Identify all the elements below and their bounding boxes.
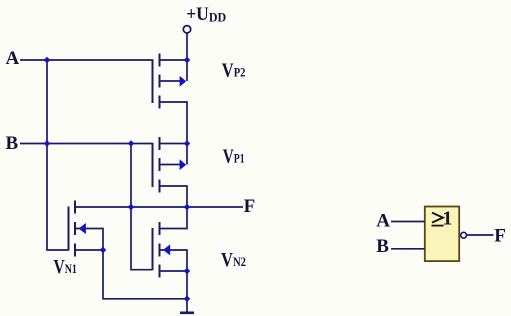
svg-text:1: 1 xyxy=(442,207,452,229)
svg-text:F: F xyxy=(244,196,256,217)
svg-text:A: A xyxy=(6,48,20,69)
svg-text:B: B xyxy=(376,236,389,257)
svg-text:B: B xyxy=(6,133,19,154)
svg-text:VP2: VP2 xyxy=(222,60,246,82)
svg-text:VP1: VP1 xyxy=(223,146,245,168)
svg-text:VN2: VN2 xyxy=(221,249,246,271)
svg-text:F: F xyxy=(494,226,506,247)
svg-text:+UDD: +UDD xyxy=(186,4,226,25)
svg-text:VN1: VN1 xyxy=(54,256,77,278)
svg-text:A: A xyxy=(376,211,390,232)
